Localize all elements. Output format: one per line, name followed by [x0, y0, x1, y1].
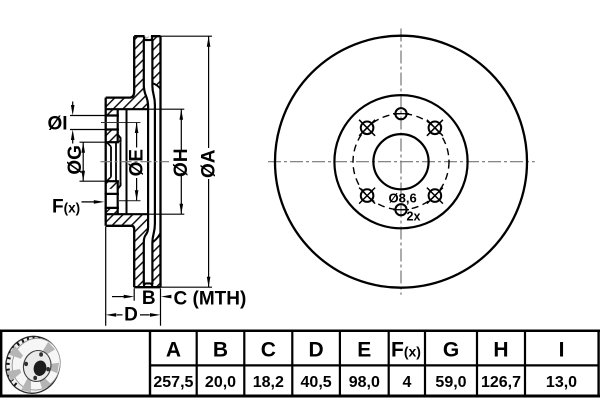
- svg-text:20,0: 20,0: [205, 374, 236, 391]
- top bolt hole centerline: [101, 122, 141, 124]
- bolt hole upper-right: [427, 120, 443, 136]
- bottom bolt hole edges: [105, 194, 119, 208]
- svg-text:13,0: 13,0: [546, 374, 577, 391]
- svg-text:D: D: [309, 339, 324, 362]
- vent channel bottom cap (vane): [144, 283, 152, 286]
- svg-text:2x: 2x: [407, 210, 421, 224]
- svg-text:4: 4: [402, 374, 411, 391]
- svg-text:59,0: 59,0: [435, 374, 466, 391]
- icon bolt holes: [24, 352, 50, 380]
- hat flange circle ØH: [334, 95, 467, 228]
- section axis centerline: [101, 161, 170, 163]
- vent channel right wall: [152, 39, 155, 284]
- svg-text:18,2: 18,2: [253, 374, 284, 391]
- hatch: hat face boss above bore: [106, 130, 121, 143]
- hat wall inner surface (top): [106, 108, 148, 110]
- row separator: [150, 364, 599, 366]
- bolt hole upper-left: [359, 120, 375, 136]
- svg-text:I: I: [559, 339, 565, 362]
- svg-text:A: A: [166, 339, 181, 362]
- hatch: hat face piece above top bolt hole: [106, 109, 118, 115]
- inboard plate outline with fillet into hat wall (bottom): [106, 226, 135, 287]
- dimension ØA line and arrows: [208, 36, 210, 287]
- hatch: hat face boss below bore: [106, 181, 121, 189]
- bore inner verticals: [111, 142, 121, 181]
- dimension ØH pointer lines: [148, 109, 185, 214]
- svg-text:E: E: [357, 339, 371, 362]
- hatch: outboard plate (top): [152, 36, 160, 89]
- dimension ØE line and arrows: [136, 123, 138, 201]
- bolt hole lower-right: [427, 188, 443, 204]
- svg-text:C (MTH): C (MTH): [174, 288, 247, 309]
- hatch: inboard plate + hat wall (bottom): [106, 214, 148, 287]
- C arrow: [161, 295, 172, 299]
- locating hole bottom Ø8,6: [393, 204, 409, 215]
- table outer borders: [0, 330, 600, 333]
- hat face left surface: [105, 98, 107, 226]
- inboard plate outline with fillet into hat wall (top): [106, 36, 135, 97]
- B extension line: [133, 289, 135, 301]
- bottom bolt hole centerline: [119, 200, 141, 202]
- bore top edge: [106, 141, 119, 143]
- boss chamfer bottom: [118, 181, 121, 189]
- vent channel top cap (vane): [144, 37, 152, 40]
- icon disc body: [0, 329, 67, 400]
- dimension ØI pointer lines: [70, 116, 105, 130]
- disc bottom rim edge: [134, 286, 160, 288]
- icon hub: [20, 347, 55, 384]
- vertical centerline: [400, 29, 402, 295]
- svg-text:B: B: [142, 288, 156, 309]
- svg-text:98,0: 98,0: [349, 374, 380, 391]
- hat face right surface: [117, 109, 119, 214]
- icon center hole: [32, 359, 48, 377]
- hatch: outboard plate (bottom): [152, 233, 160, 287]
- column lines: [149, 331, 151, 396]
- svg-text:F(x): F(x): [52, 197, 80, 218]
- B dimension arrow: [112, 296, 124, 298]
- hat wall inner corner edge: [126, 109, 128, 214]
- dimension ØH line and arrows: [180, 109, 182, 214]
- svg-text:B: B: [213, 339, 228, 362]
- svg-text:G: G: [443, 339, 459, 362]
- F(x) arrow: [82, 201, 95, 203]
- center bore ØG: [373, 134, 428, 189]
- outboard plate hatch boundary (bottom): [152, 233, 160, 242]
- svg-text:126,7: 126,7: [481, 374, 521, 391]
- icon face shading wedges: [7, 342, 59, 393]
- vent channel left wall: [144, 39, 148, 284]
- svg-text:H: H: [493, 339, 508, 362]
- svg-text:ØI: ØI: [48, 114, 68, 135]
- bore chamfer lines: [107, 142, 112, 181]
- svg-text:Ø8,6: Ø8,6: [389, 190, 417, 205]
- outer circle ØA: [275, 36, 527, 288]
- dimension ØA pointer lines: [161, 36, 213, 287]
- outboard friction face: [159, 36, 161, 287]
- hatch: inboard plate + hat wall (top): [106, 36, 148, 109]
- icon rim vent slots: [6, 336, 40, 386]
- table header row: [166, 339, 565, 362]
- svg-text:D: D: [124, 305, 138, 326]
- hatch: hat face piece below bottom bolt hole: [106, 208, 118, 214]
- svg-text:ØG: ØG: [65, 145, 86, 175]
- top bolt hole edges: [105, 116, 119, 130]
- table value row: [153, 374, 577, 391]
- bolt circle ØE (dashed): [353, 114, 449, 210]
- outboard plate hatch boundary (top): [152, 83, 160, 89]
- svg-text:257,5: 257,5: [153, 374, 193, 391]
- svg-text:40,5: 40,5: [301, 374, 332, 391]
- svg-text:ØA: ØA: [198, 149, 219, 178]
- horizontal centerline: [268, 161, 535, 163]
- disc top rim edge: [134, 35, 160, 37]
- locating hole top Ø8,6: [393, 108, 409, 119]
- dimension ØI arrows: [72, 102, 74, 144]
- bolt hole lower-left: [359, 188, 375, 204]
- D extension lines: [106, 227, 161, 326]
- svg-text:C: C: [261, 339, 276, 362]
- D dimension line and arrows: [117, 314, 150, 316]
- icon disc face: [6, 332, 67, 396]
- svg-text:ØH: ØH: [171, 148, 192, 177]
- bore bottom edge: [106, 180, 119, 182]
- vent opening notch at top rim: [145, 37, 149, 39]
- boss chamfer top: [118, 135, 121, 143]
- svg-text:ØE: ØE: [127, 149, 148, 176]
- hat wall inner surface (bottom): [106, 213, 148, 215]
- dimension ØG pointer lines: [80, 142, 105, 181]
- dimension ØG line and arrows: [82, 142, 84, 181]
